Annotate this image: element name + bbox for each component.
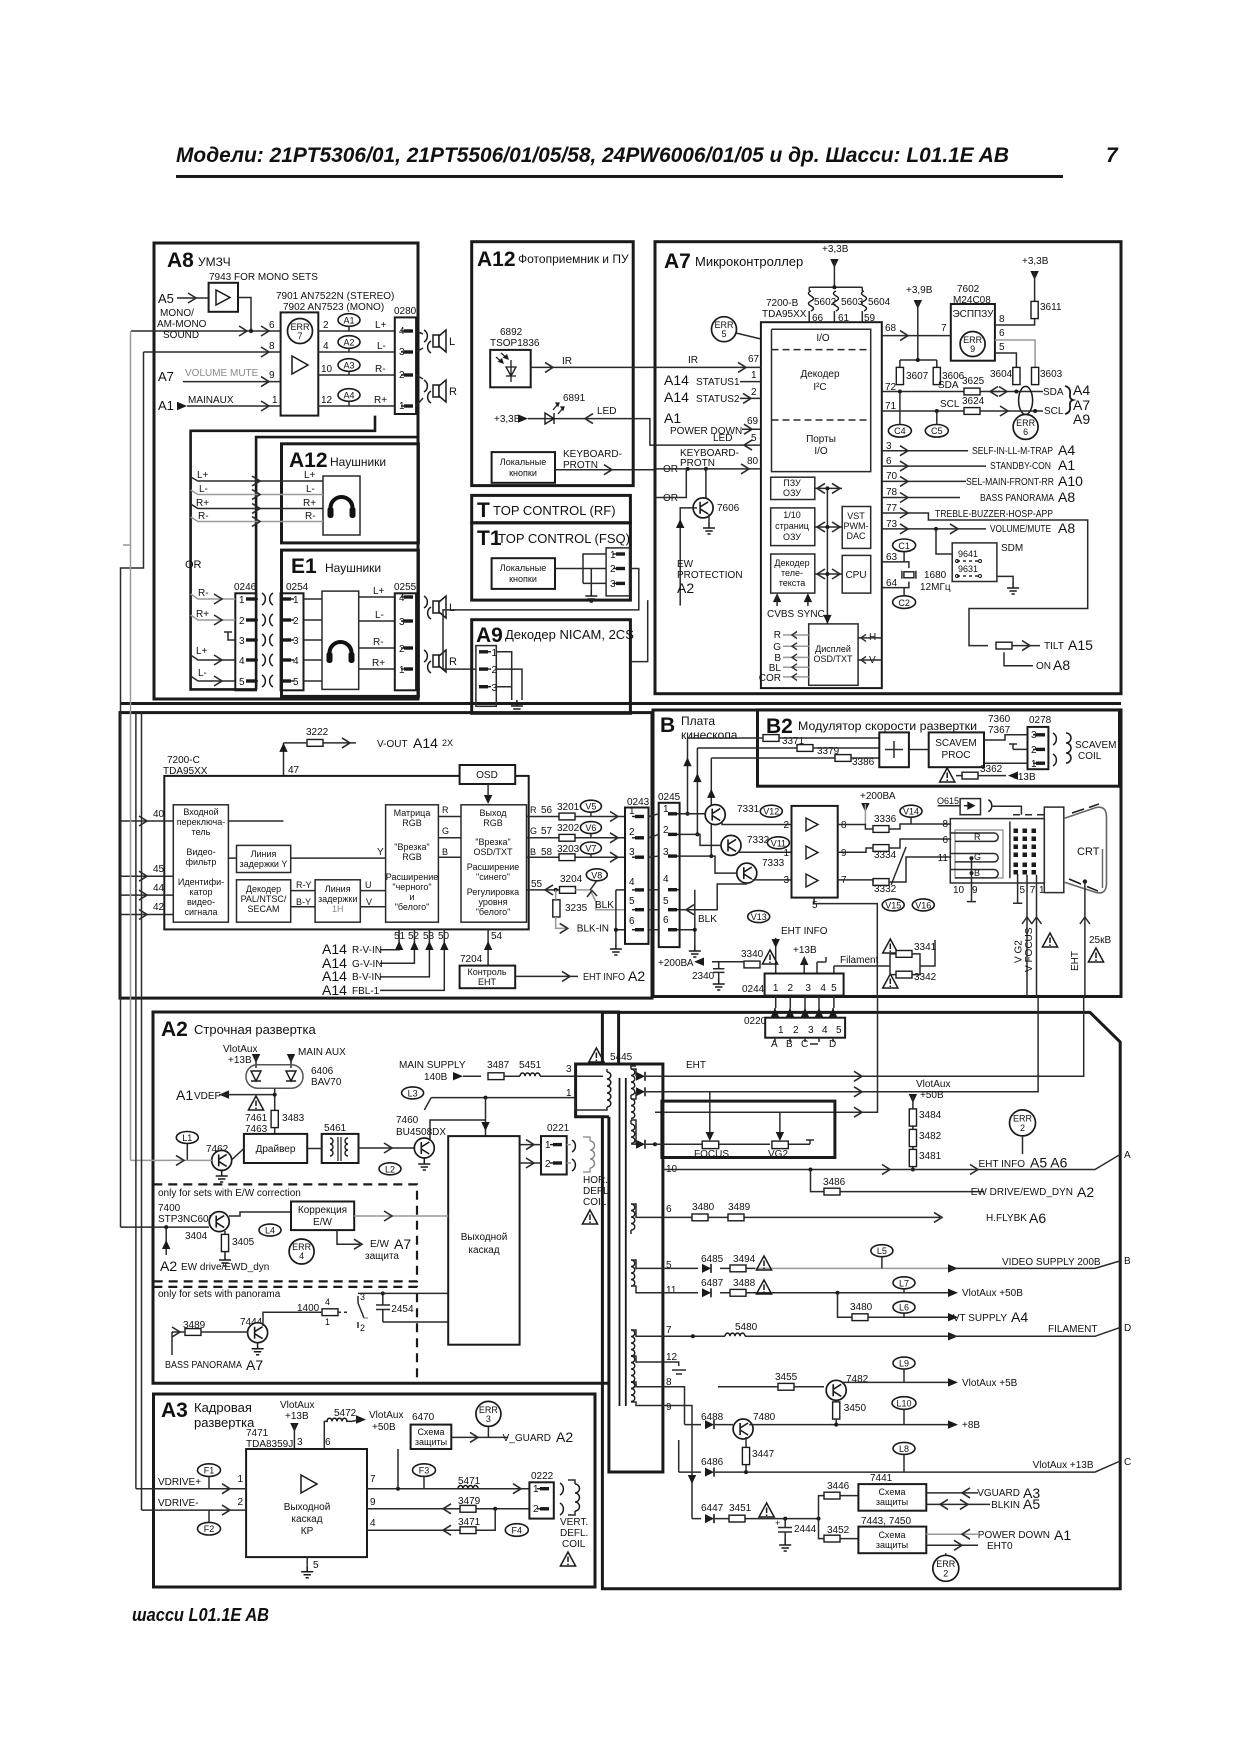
resistor 3611 bbox=[1031, 301, 1038, 318]
svg-text:5: 5 bbox=[663, 896, 669, 907]
svg-text:A9: A9 bbox=[476, 624, 503, 647]
teletext decoder box bbox=[771, 554, 815, 593]
svg-text:0245: 0245 bbox=[658, 792, 681, 803]
svg-text:L-: L- bbox=[375, 610, 384, 621]
svg-text:R+: R+ bbox=[196, 609, 209, 620]
svg-text:L-: L- bbox=[306, 484, 315, 495]
wire mosfet to EW box bbox=[229, 1212, 291, 1216]
svg-text:R: R bbox=[449, 656, 457, 668]
svg-text:SCL: SCL bbox=[940, 399, 960, 410]
resistor 5604 bbox=[862, 291, 867, 311]
secondary winding 4 bbox=[631, 1204, 635, 1230]
svg-text:3446: 3446 bbox=[827, 1481, 850, 1492]
ground pin5 bbox=[306, 1557, 308, 1566]
svg-text:3487: 3487 bbox=[487, 1060, 510, 1071]
svg-text:2: 2 bbox=[783, 820, 789, 831]
svg-text:9: 9 bbox=[269, 370, 275, 381]
svg-text:R-: R- bbox=[305, 511, 316, 522]
svg-text:7: 7 bbox=[666, 1325, 672, 1336]
resistor 3604 bbox=[1013, 367, 1020, 384]
svg-text:Дисплей: Дисплей bbox=[815, 644, 851, 654]
block frame A3 bbox=[154, 1394, 596, 1587]
svg-text:A1: A1 bbox=[176, 1087, 193, 1103]
wires IC to connector 0280 bbox=[318, 331, 395, 406]
svg-text:A10: A10 bbox=[1058, 473, 1083, 489]
svg-text:3604: 3604 bbox=[990, 369, 1013, 380]
svg-text:+50В: +50В bbox=[372, 1422, 396, 1433]
vertical output IC box bbox=[246, 1449, 367, 1557]
svg-text:CPU: CPU bbox=[845, 570, 866, 581]
svg-text:L3: L3 bbox=[408, 1088, 418, 1098]
svg-text:4: 4 bbox=[239, 656, 245, 667]
svg-text:A9: A9 bbox=[1073, 411, 1090, 427]
svg-text:E/W: E/W bbox=[313, 1217, 332, 1228]
svg-text:6486: 6486 bbox=[701, 1457, 724, 1468]
svg-text:C2: C2 bbox=[898, 598, 910, 608]
transistor 7333 bbox=[737, 863, 757, 883]
svg-text:B: B bbox=[442, 847, 448, 857]
diode top EHT bbox=[636, 1072, 645, 1081]
svg-text:6: 6 bbox=[666, 1204, 672, 1215]
svg-text:5: 5 bbox=[751, 433, 757, 444]
svg-text:R-: R- bbox=[198, 511, 209, 522]
svg-text:E/W: E/W bbox=[370, 1239, 389, 1250]
svg-text:58: 58 bbox=[541, 847, 553, 858]
wire heavy bus 2 bbox=[256, 437, 418, 689]
svg-text:Коррекция: Коррекция bbox=[298, 1205, 347, 1216]
svg-text:5461: 5461 bbox=[324, 1123, 347, 1134]
svg-text:I/O: I/O bbox=[814, 446, 828, 457]
svg-text:U: U bbox=[365, 880, 372, 890]
inner I/O region bbox=[772, 329, 871, 471]
wire EHT riser bbox=[861, 997, 1084, 1077]
svg-text:3: 3 bbox=[239, 636, 245, 647]
wire V-OUT bbox=[284, 742, 357, 744]
svg-text:Y: Y bbox=[377, 847, 384, 858]
svg-text:A7: A7 bbox=[158, 369, 174, 384]
winding taps bbox=[631, 1260, 663, 1406]
warning 5445 bbox=[589, 1048, 604, 1062]
svg-text:R+: R+ bbox=[372, 658, 385, 669]
svg-text:5: 5 bbox=[812, 900, 818, 911]
svg-text:G: G bbox=[974, 852, 981, 862]
op-amp 7943 bbox=[209, 283, 238, 312]
svg-text:7332: 7332 bbox=[747, 835, 770, 846]
svg-text:4: 4 bbox=[663, 874, 669, 885]
svg-text:F3: F3 bbox=[419, 1466, 430, 1476]
bus arrows row1 bbox=[815, 487, 842, 489]
svg-text:VOLUME/MUTE: VOLUME/MUTE bbox=[990, 524, 1051, 535]
dashed box panorama bbox=[153, 1287, 417, 1383]
svg-text:EHT INFO: EHT INFO bbox=[979, 1159, 1026, 1170]
wire E/W защита A7 bbox=[337, 1230, 360, 1244]
svg-text:6892: 6892 bbox=[500, 327, 523, 338]
svg-text:A1: A1 bbox=[1054, 1527, 1071, 1543]
resistor 3334 bbox=[873, 845, 889, 852]
svg-text:V14: V14 bbox=[903, 807, 919, 817]
svg-text:80: 80 bbox=[747, 456, 759, 467]
svg-text:9641: 9641 bbox=[958, 549, 978, 559]
resistor 3405 bbox=[221, 1234, 228, 1251]
svg-text:1: 1 bbox=[545, 1140, 551, 1151]
svg-text:+3,3В: +3,3В bbox=[494, 414, 521, 425]
svg-text:Линия: Линия bbox=[325, 884, 351, 894]
svg-text:6: 6 bbox=[663, 915, 669, 926]
svg-text:7: 7 bbox=[1030, 885, 1036, 896]
block frame B2 bbox=[758, 710, 1120, 786]
svg-text:A6: A6 bbox=[1029, 1210, 1046, 1226]
svg-text:3340: 3340 bbox=[741, 949, 764, 960]
svg-text:Схема: Схема bbox=[878, 1530, 905, 1540]
svg-text:BLK: BLK bbox=[698, 914, 717, 925]
svg-text:3480: 3480 bbox=[692, 1202, 715, 1213]
svg-text:5: 5 bbox=[239, 677, 245, 688]
svg-text:VDRIVE+: VDRIVE+ bbox=[158, 1477, 201, 1488]
transistor 7331 bbox=[705, 805, 725, 825]
svg-text:9: 9 bbox=[370, 1497, 376, 1508]
svg-text:8: 8 bbox=[999, 314, 1005, 325]
wire pin40 row to pin47 vertical bbox=[228, 820, 283, 822]
protection box A3 bbox=[411, 1425, 452, 1449]
svg-text:L7: L7 bbox=[899, 1278, 909, 1288]
output stage box bbox=[448, 1136, 519, 1345]
svg-text:A7: A7 bbox=[394, 1236, 411, 1252]
svg-text:L-: L- bbox=[377, 341, 386, 352]
svg-text:7200-B: 7200-B bbox=[766, 298, 799, 309]
svg-text:B-V-IN: B-V-IN bbox=[352, 972, 381, 983]
svg-text:уровня: уровня bbox=[478, 897, 507, 907]
svg-text:VST: VST bbox=[847, 511, 865, 521]
svg-text:3341: 3341 bbox=[914, 942, 937, 953]
svg-text:STATUS2: STATUS2 bbox=[696, 394, 740, 405]
svg-text:OSD/TXT: OSD/TXT bbox=[473, 847, 513, 857]
svg-text:SCAVEM: SCAVEM bbox=[935, 738, 977, 749]
EEPROM box bbox=[951, 304, 995, 361]
svg-text:VlotAux +13В: VlotAux +13В bbox=[1033, 1460, 1094, 1471]
net VlotAux +50В bbox=[356, 1415, 366, 1423]
svg-text:3607: 3607 bbox=[906, 371, 929, 382]
protection box 7443 bbox=[858, 1527, 926, 1554]
svg-text:страниц: страниц bbox=[775, 521, 809, 531]
svg-text:3334: 3334 bbox=[874, 850, 897, 861]
svg-text:3404: 3404 bbox=[185, 1231, 208, 1242]
svg-text:MAINAUX: MAINAUX bbox=[188, 395, 234, 406]
error circle ERR2b bbox=[933, 1555, 959, 1581]
svg-text:BLK-IN: BLK-IN bbox=[577, 924, 609, 935]
resistor 3625 bbox=[964, 388, 980, 395]
wires VGUARD / BLKIN bbox=[926, 1492, 978, 1494]
svg-text:3451: 3451 bbox=[729, 1503, 752, 1514]
speaker L bbox=[424, 330, 427, 342]
svg-text:BLKIN: BLKIN bbox=[991, 1500, 1020, 1511]
svg-text:Локальные: Локальные bbox=[500, 457, 546, 467]
grid separator line bbox=[1009, 822, 1011, 879]
svg-text:"черного": "черного" bbox=[392, 882, 431, 892]
wire ON A8 bbox=[1004, 652, 1033, 666]
svg-text:56: 56 bbox=[541, 805, 553, 816]
block frame A12 photoreceiver bbox=[472, 242, 634, 486]
wire EW gate feed bbox=[120, 702, 122, 1227]
svg-text:BAV70: BAV70 bbox=[311, 1077, 342, 1088]
secondary winding 3 bbox=[631, 1124, 635, 1144]
svg-text:ОЗУ: ОЗУ bbox=[783, 532, 801, 542]
transistor 7460 bbox=[414, 1138, 434, 1158]
svg-text:only for sets with E/W correct: only for sets with E/W correction bbox=[158, 1188, 301, 1199]
svg-text:MAIN AUX: MAIN AUX bbox=[298, 1047, 346, 1058]
capacitor C4 oval bbox=[888, 425, 911, 438]
flyback core bbox=[620, 1078, 626, 1406]
wire VDRIVE+ feed bbox=[135, 712, 137, 1489]
svg-text:5: 5 bbox=[999, 342, 1005, 353]
EW correction box bbox=[291, 1202, 354, 1231]
net V16 oval bbox=[912, 899, 934, 911]
svg-text:1: 1 bbox=[272, 395, 278, 406]
svg-text:L-: L- bbox=[198, 668, 207, 679]
svg-text:1680: 1680 bbox=[924, 570, 947, 581]
svg-text:R+: R+ bbox=[303, 498, 316, 509]
secondary winding 1 bbox=[631, 1069, 635, 1095]
svg-text:A4: A4 bbox=[343, 391, 354, 401]
svg-text:8: 8 bbox=[841, 820, 847, 831]
svg-text:F4: F4 bbox=[512, 1526, 523, 1536]
svg-text:3484: 3484 bbox=[919, 1110, 942, 1121]
svg-text:+13В: +13В bbox=[793, 945, 817, 956]
svg-text:TOP CONTROL (RF): TOP CONTROL (RF) bbox=[493, 503, 616, 518]
net L6 oval bbox=[893, 1301, 915, 1313]
svg-text:COR: COR bbox=[759, 673, 781, 684]
svg-text:A1: A1 bbox=[158, 398, 174, 413]
svg-text:V13: V13 bbox=[751, 912, 767, 922]
svg-text:12МГц: 12МГц bbox=[920, 582, 951, 593]
pixel grid bbox=[1014, 829, 1037, 875]
winding 6 bbox=[631, 1330, 635, 1356]
svg-text:T: T bbox=[477, 499, 490, 522]
svg-text:V FOCUS: V FOCUS bbox=[1024, 927, 1035, 972]
svg-text:2454: 2454 bbox=[391, 1304, 414, 1315]
wire to 3452 bbox=[819, 1519, 859, 1539]
net V13 oval bbox=[748, 911, 770, 923]
svg-text:EHT0: EHT0 bbox=[987, 1541, 1013, 1552]
svg-text:LED: LED bbox=[597, 406, 616, 417]
svg-text:VlotAux: VlotAux bbox=[916, 1079, 950, 1090]
svg-text:BLK: BLK bbox=[595, 900, 614, 911]
block frame A9 bbox=[472, 620, 631, 714]
capacitor C5 oval bbox=[925, 425, 948, 438]
svg-text:L8: L8 bbox=[899, 1444, 909, 1454]
delay line Y box bbox=[237, 845, 291, 872]
svg-text:V G2: V G2 bbox=[1014, 940, 1025, 963]
ground T1 bbox=[585, 590, 597, 602]
amp triangle R bbox=[806, 818, 818, 831]
svg-text:4: 4 bbox=[293, 656, 299, 667]
net V5 oval bbox=[580, 800, 601, 812]
svg-text:F1: F1 bbox=[204, 1466, 215, 1476]
svg-text:3455: 3455 bbox=[775, 1372, 798, 1383]
internal bus vertical bbox=[826, 488, 828, 624]
svg-text:R+: R+ bbox=[374, 395, 387, 406]
svg-text:R: R bbox=[530, 805, 537, 815]
svg-text:A4: A4 bbox=[1058, 442, 1075, 458]
net L3 oval bbox=[402, 1087, 424, 1099]
svg-text:COIL: COIL bbox=[1078, 751, 1102, 762]
RGB matrix box bbox=[386, 805, 439, 922]
svg-text:3: 3 bbox=[297, 1437, 303, 1448]
svg-text:3488: 3488 bbox=[733, 1278, 756, 1289]
svg-text:3481: 3481 bbox=[919, 1151, 942, 1162]
VERT DEFL COIL bbox=[560, 1483, 563, 1495]
wires from 0243 to 0245 bbox=[649, 814, 659, 930]
svg-text:+13В: +13В bbox=[228, 1055, 252, 1066]
svg-text:5: 5 bbox=[721, 329, 726, 339]
svg-text:3: 3 bbox=[629, 847, 635, 858]
resistor 3371 bbox=[763, 735, 779, 742]
wire A9 right feed bbox=[630, 600, 647, 662]
svg-text:Расширение: Расширение bbox=[386, 872, 438, 882]
svg-text:FILAMENT: FILAMENT bbox=[1048, 1324, 1097, 1335]
svg-text:A2: A2 bbox=[628, 968, 645, 984]
svg-text:1: 1 bbox=[778, 1025, 784, 1036]
svg-text:6: 6 bbox=[269, 320, 275, 331]
svg-text:2: 2 bbox=[492, 665, 498, 676]
svg-text:1: 1 bbox=[237, 1474, 243, 1485]
resistor 5602 bbox=[809, 291, 814, 311]
svg-text:R-V-IN: R-V-IN bbox=[352, 945, 382, 956]
error circle ERR9 bbox=[960, 332, 985, 357]
svg-text:POWER DOWN: POWER DOWN bbox=[978, 1530, 1050, 1541]
wire V_GUARD A2 bbox=[451, 1436, 508, 1438]
ground stub pin9 bbox=[970, 856, 974, 860]
svg-text:L: L bbox=[449, 336, 455, 348]
svg-text:R-: R- bbox=[373, 637, 384, 648]
PAL/NTSC/SECAM decoder box bbox=[237, 880, 291, 922]
block frame A7 bbox=[655, 242, 1121, 694]
svg-text:5604: 5604 bbox=[868, 297, 891, 308]
wires 0254 to jack bbox=[304, 599, 323, 681]
svg-text:ЭСППЗУ: ЭСППЗУ bbox=[952, 309, 994, 320]
wires 0244 to 0220 bridge bbox=[776, 996, 834, 1008]
resistor 3607 bbox=[896, 367, 903, 384]
svg-text:DEFL.: DEFL. bbox=[560, 1528, 588, 1539]
svg-text:TILT: TILT bbox=[1044, 641, 1064, 652]
svg-text:G: G bbox=[773, 642, 781, 653]
svg-text:КР: КР bbox=[301, 1526, 314, 1537]
VT SUPPLY branch bbox=[836, 1291, 840, 1295]
svg-text:кнопки: кнопки bbox=[509, 574, 537, 584]
svg-text:TDA95XX: TDA95XX bbox=[762, 309, 807, 320]
adder box bbox=[879, 732, 909, 767]
error circle ERR5 bbox=[712, 317, 737, 342]
svg-text:6470: 6470 bbox=[412, 1412, 435, 1423]
svg-text:PAL/NTSC/: PAL/NTSC/ bbox=[241, 894, 287, 904]
local buttons box T1 bbox=[492, 558, 555, 589]
headphones icon bbox=[327, 642, 355, 663]
net F4 oval bbox=[505, 1524, 528, 1537]
svg-text:3: 3 bbox=[492, 683, 498, 694]
amp triangle G bbox=[806, 846, 818, 859]
svg-text:57: 57 bbox=[541, 826, 553, 837]
svg-text:10: 10 bbox=[953, 885, 965, 896]
svg-text:5: 5 bbox=[313, 1560, 319, 1571]
heaters enclosure bbox=[955, 830, 1003, 878]
svg-text:ЕНТ: ЕНТ bbox=[478, 977, 497, 987]
svg-text:6406: 6406 bbox=[311, 1066, 334, 1077]
svg-text:L2: L2 bbox=[385, 1164, 395, 1174]
primary coil bbox=[607, 1072, 611, 1107]
svg-text:3: 3 bbox=[805, 983, 811, 994]
svg-text:12: 12 bbox=[321, 395, 333, 406]
svg-text:L6: L6 bbox=[899, 1303, 909, 1313]
svg-text:переключа-: переключа- bbox=[177, 817, 225, 827]
svg-text:+13В: +13В bbox=[285, 1411, 309, 1422]
warning triangles 3341/3342 bbox=[883, 939, 898, 953]
svg-text:Модели: 21PT5306/01, 21PT5506/: Модели: 21PT5306/01, 21PT5506/01/05/58, … bbox=[176, 144, 1009, 167]
svg-text:L9: L9 bbox=[899, 1359, 909, 1369]
svg-text:7902 AN7523 (MONO): 7902 AN7523 (MONO) bbox=[283, 302, 384, 313]
svg-text:3452: 3452 bbox=[827, 1525, 850, 1536]
net V14 oval bbox=[900, 805, 922, 817]
resistor 3386 bbox=[835, 755, 851, 762]
svg-text:2: 2 bbox=[751, 387, 757, 398]
svg-text:0280: 0280 bbox=[394, 306, 417, 317]
wire LED to A7 bbox=[598, 419, 655, 446]
svg-text:9: 9 bbox=[841, 848, 847, 859]
svg-text:3: 3 bbox=[610, 579, 616, 590]
svg-text:3483: 3483 bbox=[282, 1113, 305, 1124]
svg-text:V5: V5 bbox=[585, 802, 596, 812]
wire main L input row pin6 bbox=[131, 330, 251, 332]
svg-text:LED: LED bbox=[713, 433, 732, 444]
svg-text:Фотоприемник и ПУ: Фотоприемник и ПУ bbox=[518, 252, 629, 266]
crystal 1680 12MHz bbox=[902, 571, 916, 579]
svg-text:SDM: SDM bbox=[1001, 543, 1023, 554]
svg-text:Регулировка: Регулировка bbox=[467, 887, 519, 897]
svg-text:I²C: I²C bbox=[813, 382, 826, 393]
svg-text:7: 7 bbox=[370, 1474, 376, 1485]
svg-text:"белого": "белого" bbox=[395, 902, 430, 912]
svg-text:Модулятор скорости развертки: Модулятор скорости развертки bbox=[798, 719, 977, 733]
svg-text:C1: C1 bbox=[898, 541, 910, 551]
svg-text:G-V-IN: G-V-IN bbox=[352, 959, 383, 970]
ground hook at pin2 bbox=[1009, 744, 1028, 749]
svg-text:1: 1 bbox=[751, 370, 757, 381]
svg-text:7204: 7204 bbox=[460, 954, 483, 965]
svg-text:2: 2 bbox=[788, 983, 794, 994]
svg-text:V7: V7 bbox=[585, 844, 596, 854]
svg-text:9: 9 bbox=[972, 885, 978, 896]
block frame EHT secondary bbox=[602, 1012, 1120, 1588]
svg-text:2: 2 bbox=[293, 616, 299, 627]
svg-text:MONO/: MONO/ bbox=[160, 308, 194, 319]
net label A1 oval bbox=[338, 314, 360, 327]
svg-text:B: B bbox=[530, 847, 536, 857]
resistor 3482 bbox=[909, 1129, 916, 1146]
svg-text:Выход: Выход bbox=[480, 808, 508, 818]
svg-text:Идентифи-: Идентифи- bbox=[178, 877, 224, 887]
svg-text:7471: 7471 bbox=[246, 1428, 269, 1439]
svg-text:OR: OR bbox=[185, 559, 202, 571]
svg-text:I/O: I/O bbox=[816, 333, 830, 344]
svg-text:A2: A2 bbox=[161, 1018, 188, 1041]
svg-text:69: 69 bbox=[747, 416, 759, 427]
svg-text:68: 68 bbox=[885, 323, 897, 334]
svg-text:BASS PANORAMA: BASS PANORAMA bbox=[165, 1360, 242, 1371]
net L8 oval bbox=[893, 1442, 915, 1454]
svg-text:3: 3 bbox=[293, 636, 299, 647]
bus arrows row3 bbox=[815, 573, 842, 575]
bus arrows row2 bbox=[815, 526, 842, 528]
secondary winding 5 bbox=[631, 1260, 635, 1286]
svg-text:7943 FOR MONO SETS: 7943 FOR MONO SETS bbox=[209, 272, 318, 283]
